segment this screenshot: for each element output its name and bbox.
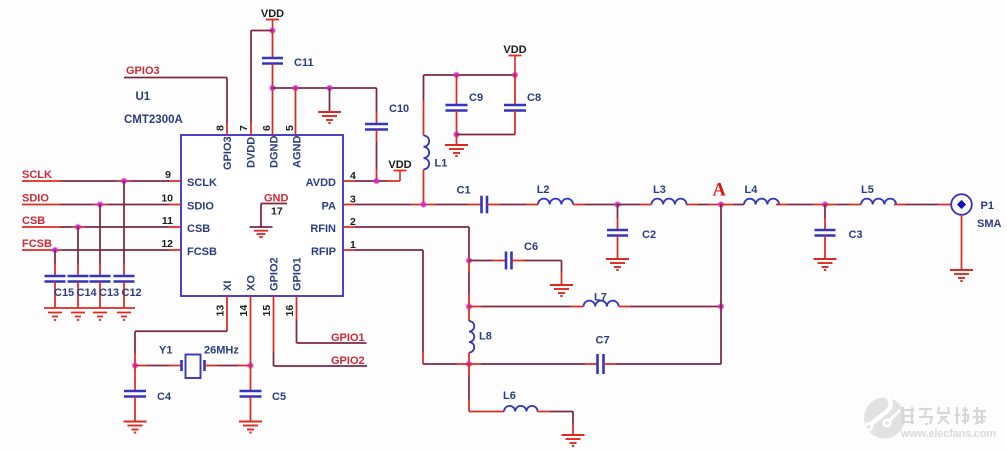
wire C14 bottom lead (77, 282, 79, 309)
svg-text:L5: L5 (861, 184, 874, 196)
ground under P1 (950, 269, 973, 271)
inductor L2 (538, 199, 573, 205)
svg-text:6: 6 (261, 125, 273, 131)
svg-text:15: 15 (261, 305, 273, 317)
svg-text:10: 10 (161, 193, 173, 205)
svg-text:AGND: AGND (291, 136, 303, 168)
svg-text:RFIP: RFIP (311, 246, 336, 258)
svg-text:GPIO3: GPIO3 (126, 65, 160, 77)
watermark brand glyphs (901, 407, 986, 424)
svg-text:PA: PA (322, 201, 337, 213)
wire C10 to AVDD (376, 130, 378, 143)
wire AVDD pin 4 (343, 180, 355, 182)
ground rail for C15-C12 (44, 307, 135, 309)
node junction C9 bottom (453, 131, 460, 138)
ground on rail (329, 88, 331, 112)
svg-text:8: 8 (215, 125, 227, 131)
svg-text:SCLK: SCLK (22, 169, 52, 181)
wire L5 to P1 (894, 204, 906, 206)
ground under C3 (814, 258, 837, 260)
wire VDD to C11 (272, 31, 274, 59)
svg-text:VDD: VDD (503, 44, 526, 56)
wire AGND rail (273, 87, 377, 89)
svg-text:L4: L4 (745, 184, 759, 196)
wire VDD to pin 7 (251, 30, 273, 32)
svg-text:C15: C15 (54, 287, 74, 299)
wire L1 top branch (423, 75, 425, 100)
wire Y1 right (205, 365, 218, 367)
wire C13 bottom lead (99, 282, 101, 309)
svg-text:L7: L7 (594, 292, 607, 304)
wire drop to C15 (54, 250, 56, 264)
inductor L1 (424, 136, 430, 170)
ground under C9 (456, 135, 458, 146)
wire L8 bottom to L6 (468, 364, 470, 375)
capacitor C6 (505, 252, 508, 270)
svg-text:FCSB: FCSB (22, 238, 52, 250)
wire drop to C13 (99, 205, 101, 265)
svg-text:14: 14 (238, 305, 250, 317)
svg-text:XO: XO (245, 275, 257, 291)
svg-text:C13: C13 (99, 287, 119, 299)
wire drop to C14 (77, 227, 79, 264)
wire pin 13 XI (226, 296, 228, 331)
wire pin 15 GPIO2 (273, 296, 275, 352)
inductor L5 (861, 199, 896, 205)
capacitor C14 (68, 275, 89, 278)
node junction C11 bottom (269, 85, 276, 92)
inductor L3 (652, 199, 687, 205)
node junction L8 bottom (466, 361, 473, 368)
svg-text:C2: C2 (642, 229, 656, 241)
svg-text:Y1: Y1 (159, 345, 172, 357)
wire pin 16 GPIO1 (296, 296, 298, 320)
wire node A down to C7 line (720, 205, 722, 307)
capacitor C1 (480, 196, 483, 214)
wire C7 line (423, 363, 457, 365)
svg-text:C11: C11 (294, 57, 314, 69)
capacitor C11 (262, 57, 283, 60)
node junction on CSB (75, 224, 82, 231)
svg-text:L3: L3 (653, 184, 666, 196)
wire pin 14 XO (250, 296, 252, 366)
node junction pin5 rail (292, 85, 299, 92)
svg-text:C1: C1 (457, 185, 471, 197)
svg-text:RFIN: RFIN (310, 223, 336, 235)
capacitor C12 (114, 275, 135, 278)
svg-text:VDD: VDD (388, 159, 411, 171)
svg-text:www.elecfans.com: www.elecfans.com (900, 428, 996, 440)
ground under C14 (71, 312, 85, 314)
wire GPIO3 to pin 8 (124, 77, 227, 79)
svg-text:C8: C8 (527, 92, 541, 104)
node junction L7 right (718, 303, 725, 310)
wire RFIP pin 1 (343, 249, 355, 251)
capacitor C3 shunt (824, 205, 826, 219)
svg-text:C6: C6 (524, 241, 538, 253)
wire GND17 (261, 203, 287, 205)
node junction C8 top VDD (512, 72, 519, 79)
svg-text:9: 9 (165, 169, 171, 181)
wire C11 to rail / pin 6 (272, 64, 274, 89)
ground under C2 (606, 258, 629, 260)
wire RFIN pin 2 (343, 226, 355, 228)
capacitor C10 (365, 123, 388, 126)
svg-text:AVDD: AVDD (306, 177, 336, 189)
node junction A (718, 201, 725, 208)
op-amp U1 CMT2300A IC body (181, 135, 343, 296)
wire C2 node to L3 (618, 204, 641, 206)
wire rail to C10 (376, 88, 378, 112)
wire C4 drop (134, 366, 136, 392)
svg-text:XI: XI (222, 281, 234, 291)
capacitor C2 shunt (617, 205, 619, 219)
node junction L1/PA (420, 201, 427, 208)
svg-text:C14: C14 (77, 287, 98, 299)
wire A to L4 (721, 204, 733, 206)
svg-text:GPIO1: GPIO1 (291, 257, 303, 291)
node junction on SCLK (121, 178, 128, 185)
svg-text:GPIO1: GPIO1 (331, 332, 365, 344)
svg-text:FCSB: FCSB (187, 246, 217, 258)
node junction ground rail (326, 85, 333, 92)
wire Y1 left (135, 365, 147, 367)
svg-text:SDIO: SDIO (187, 201, 214, 213)
inductor L7 (584, 301, 619, 307)
wire rail to pin 5 (295, 88, 297, 123)
svg-text:17: 17 (271, 206, 283, 218)
watermark logo (864, 396, 905, 439)
svg-text:C4: C4 (157, 391, 172, 403)
wire drop to C12 (123, 181, 125, 264)
capacitor C9 (456, 75, 458, 105)
svg-text:DGND: DGND (268, 136, 280, 168)
svg-text:C9: C9 (469, 92, 483, 104)
svg-text:SCLK: SCLK (187, 177, 217, 189)
node junction Y1 left (132, 362, 139, 369)
node junction Y1 right (247, 362, 254, 369)
svg-text:GPIO3: GPIO3 (222, 136, 234, 170)
svg-text:CSB: CSB (22, 215, 45, 227)
svg-text:CSB: CSB (187, 223, 210, 235)
node junction VDD (269, 27, 276, 34)
wire C1 to L2 (487, 204, 500, 206)
wire SDIO (22, 204, 60, 206)
wire XO to C5 (250, 366, 252, 392)
wire FCSB (22, 249, 48, 251)
svg-text:CMT2300A: CMT2300A (124, 114, 183, 126)
wire L4 to C3 node (776, 204, 788, 206)
ground under C12 (117, 312, 131, 314)
wire C15 bottom lead (54, 282, 56, 309)
ground under C13 (93, 312, 107, 314)
svg-text:C12: C12 (122, 287, 142, 299)
svg-text:26MHz: 26MHz (204, 345, 239, 357)
connector P1 SMA (951, 194, 972, 215)
svg-text:VDD: VDD (261, 8, 284, 20)
svg-text:12: 12 (161, 238, 173, 250)
node junction C2 (614, 201, 621, 208)
svg-text:GPIO2: GPIO2 (268, 257, 280, 291)
ground for pin 17 (250, 226, 273, 228)
svg-text:GPIO2: GPIO2 (331, 355, 365, 367)
node junction AVDD C10 (373, 178, 380, 185)
svg-text:C10: C10 (389, 103, 409, 115)
node junction on FCSB (52, 247, 59, 254)
wire CSB (22, 226, 60, 228)
ground under C4 (124, 421, 147, 423)
svg-text:11: 11 (162, 215, 173, 227)
wire L7 branch (469, 306, 481, 308)
svg-text:L8: L8 (479, 331, 492, 343)
wire L1 bottom to PA (423, 170, 425, 193)
svg-text:U1: U1 (136, 91, 151, 103)
svg-text:5: 5 (284, 125, 296, 131)
svg-text:A: A (713, 181, 727, 201)
svg-text:C7: C7 (596, 335, 610, 347)
node junction L7/L8 (466, 303, 473, 310)
svg-text:C3: C3 (849, 229, 863, 241)
node junction on SDIO (97, 201, 104, 208)
capacitor C15 (45, 275, 66, 278)
wire L2 to C2 node (573, 204, 585, 206)
wire L3 to node A (686, 204, 698, 206)
svg-text:C5: C5 (272, 391, 286, 403)
node junction C9 top (453, 72, 460, 79)
ground under L6 (562, 434, 585, 436)
wire C12 bottom lead (123, 282, 125, 309)
ground under C5 (239, 421, 262, 423)
wire P1 to ground (961, 215, 963, 240)
inductor L8 (468, 307, 470, 322)
wire C6 branch (469, 260, 493, 262)
svg-text:SDIO: SDIO (22, 193, 49, 205)
inductor L4 (744, 199, 779, 205)
crystal Y1 (180, 360, 183, 371)
svg-text:L1: L1 (435, 158, 448, 170)
svg-text:16: 16 (284, 305, 296, 317)
capacitor C7 (596, 354, 599, 374)
svg-text:DVDD: DVDD (245, 137, 257, 168)
wire RFIN down to L7 node (468, 261, 470, 273)
capacitor C13 (90, 275, 111, 278)
wire C3 node to L5 (825, 204, 837, 206)
wire SCLK (22, 180, 60, 182)
wire PA pin 3 (343, 204, 355, 206)
wire C9 bottom to C8 bottom (457, 134, 516, 136)
svg-text:L2: L2 (537, 184, 550, 196)
ground under C15 (48, 312, 62, 314)
node junction C3 (822, 201, 829, 208)
node junction C6 (466, 257, 473, 264)
svg-text:L6: L6 (503, 390, 516, 402)
svg-text:7: 7 (238, 125, 250, 131)
capacitor C4 (124, 390, 146, 393)
capacitor C5 (240, 390, 262, 393)
svg-text:13: 13 (215, 305, 227, 317)
svg-text:SMA: SMA (977, 218, 1002, 230)
inductor L6 (504, 406, 538, 412)
ground under C6 (550, 284, 573, 286)
svg-text:P1: P1 (981, 200, 994, 212)
capacitor C8 (514, 75, 516, 105)
